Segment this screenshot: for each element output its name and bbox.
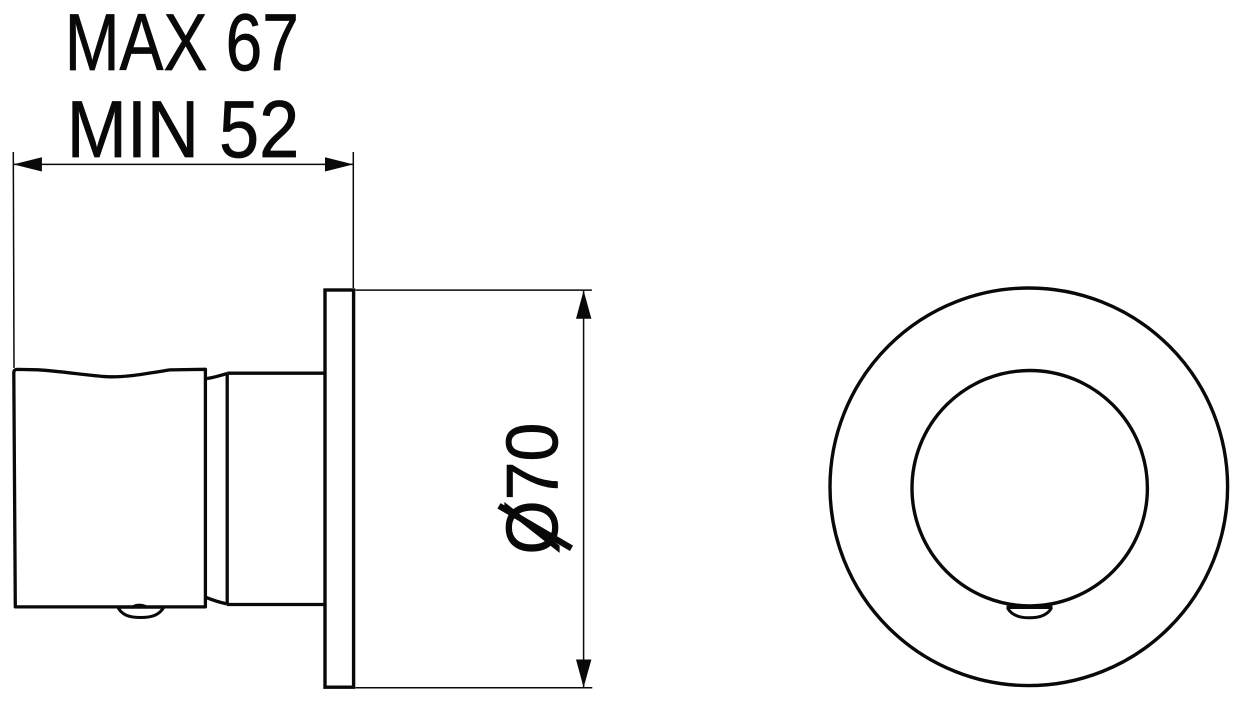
- bump arc (front view): [1008, 608, 1052, 618]
- chamfer top (knob to ring): [206, 373, 227, 378]
- inner circle (knob front view): [912, 371, 1147, 606]
- extension line left (knob front face): [12, 152, 15, 368]
- knob grub-screw bump (side view): [118, 607, 164, 617]
- dimension line MAX/MIN horizontal: [13, 163, 353, 165]
- svg-text:MAX 67: MAX 67: [65, 0, 299, 88]
- svg-text:Ø70: Ø70: [492, 423, 574, 555]
- arrowhead up: [576, 291, 591, 319]
- outer circle (wall plate front view): [830, 288, 1228, 686]
- extension line top (plate top to dim): [356, 289, 592, 291]
- adapter ring (side view): [227, 373, 325, 604]
- arrowhead left: [13, 157, 42, 171]
- wall plate (side view): [325, 290, 354, 687]
- extension line bottom (plate bottom to dim): [356, 687, 593, 689]
- extension line right (wall plate face): [352, 152, 354, 288]
- bump top tick (side view): [133, 605, 146, 606]
- arrowhead right: [325, 157, 353, 171]
- diameter slash extension: [499, 506, 572, 549]
- knob body (side view): [14, 369, 206, 607]
- chamfer bottom (knob to ring): [206, 597, 227, 604]
- bump chord (front view): [1007, 606, 1053, 609]
- dimension line D70 vertical: [583, 291, 585, 688]
- svg-text:MIN 52: MIN 52: [67, 85, 300, 175]
- arrowhead down: [576, 660, 591, 688]
